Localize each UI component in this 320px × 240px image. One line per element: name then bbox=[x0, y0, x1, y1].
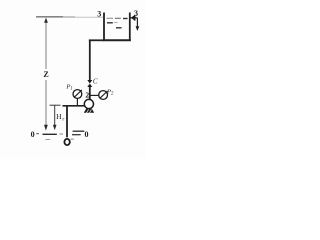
svg-text:C: C bbox=[93, 77, 98, 85]
svg-text:г: г bbox=[62, 117, 64, 123]
svg-text:2: 2 bbox=[111, 92, 114, 97]
wire discharge pipe vertical lower bbox=[89, 87, 91, 100]
tank T1 left wall bbox=[103, 13, 105, 42]
dimension tick Hg top bbox=[50, 104, 61, 106]
pump support hatching bbox=[84, 109, 94, 113]
water surface dash 3 bbox=[123, 18, 128, 20]
arrowhead outlet down bbox=[136, 26, 140, 31]
datum dash left long bbox=[43, 133, 57, 135]
svg-text:Z: Z bbox=[43, 70, 48, 79]
water surface dash 1 bbox=[107, 17, 114, 19]
arrowhead Z bottom (points down to datum) bbox=[44, 125, 48, 131]
tank outlet stub bbox=[131, 17, 138, 19]
water surface dash 2 bbox=[115, 17, 121, 19]
wire discharge pipe vertical upper bbox=[89, 40, 91, 81]
svg-text:0: 0 bbox=[31, 130, 35, 139]
tick at outlet arrowhead bbox=[134, 15, 136, 21]
arrowhead into tank wall bbox=[131, 15, 135, 20]
datum dash right lower bbox=[72, 134, 81, 136]
svg-text:0: 0 bbox=[85, 130, 89, 139]
gauge P2 needle bbox=[100, 91, 108, 98]
tank T1 bottom bbox=[103, 39, 131, 41]
wire suction pipe vertical drop bbox=[66, 105, 68, 137]
svg-text:H: H bbox=[56, 112, 62, 121]
datum stray dash left bbox=[46, 139, 51, 141]
tank T1 right wall bbox=[129, 13, 131, 42]
wire discharge pipe horizontal to tank bbox=[89, 39, 104, 41]
pump U1 body bbox=[84, 99, 93, 108]
svg-text:2: 2 bbox=[85, 90, 89, 99]
arrowhead Hg bottom bbox=[53, 125, 57, 131]
svg-text:3: 3 bbox=[134, 9, 138, 18]
gauge P2 body bbox=[99, 91, 108, 100]
wire liquid-level reference line (dark part) bbox=[36, 16, 63, 18]
dimension line Hg bbox=[54, 106, 56, 126]
wire liquid-level reference line (faded part) bbox=[63, 16, 75, 18]
foot valve strainer bbox=[64, 139, 69, 145]
dimension line Z (vertical) bbox=[45, 23, 47, 70]
water dash row2b bbox=[114, 22, 118, 24]
wire liquid-level reference line (faint part to tank) bbox=[75, 16, 103, 18]
datum dash right upper bbox=[73, 130, 85, 132]
wire gauge P2 stub bbox=[91, 94, 100, 96]
wire suction pipe horizontal bbox=[63, 105, 85, 107]
datum dash mid bbox=[60, 133, 64, 135]
wire outlet downcomer bbox=[136, 18, 138, 27]
svg-text:1: 1 bbox=[70, 87, 72, 92]
gauge P1 body bbox=[73, 90, 82, 99]
arrowhead Z top (points up to level line) bbox=[44, 18, 48, 23]
wire gauge P1 stem bbox=[76, 98, 78, 106]
datum dash left small bbox=[36, 133, 39, 135]
gauge P1 needle bbox=[74, 90, 82, 97]
water dash row3 bbox=[116, 27, 122, 29]
water dash row2 bbox=[107, 22, 113, 24]
valve C (gate valve bowtie) bbox=[87, 80, 92, 84]
datum stray dash right bbox=[71, 138, 74, 140]
svg-text:3: 3 bbox=[97, 9, 101, 18]
